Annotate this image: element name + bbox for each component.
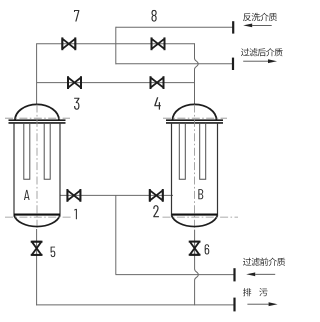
vessel B bottom head — [172, 215, 218, 226]
wire: right riser to vessel B with crossover hop — [195, 43, 199, 104]
vessel A top tangent dash-dot line — [5, 117, 70, 119]
valve 7/8 header line — [37, 43, 195, 45]
wire: vessel A drain drop through valve 5 — [36, 229, 38, 305]
vessel A flange — [9, 119, 66, 121]
过滤后介质 filtrate line — [116, 63, 234, 65]
arrow: filtrate flow (right) — [243, 59, 277, 63]
vessel A shell walls — [13, 123, 15, 215]
valve 1 — [67, 189, 80, 202]
arrow: drain flow (right) — [247, 302, 277, 306]
label valve number 1 — [74, 209, 77, 219]
valve 7 — [62, 37, 75, 50]
wire: riser x=116 backwash to filtrate header — [115, 27, 117, 65]
valve 4 — [151, 76, 164, 89]
valve 1/2 feed cross line — [60, 194, 173, 196]
valve 2 — [150, 189, 163, 202]
valve 3 — [68, 76, 81, 89]
valve 5 — [31, 242, 43, 255]
vessel B filter candle right — [200, 123, 206, 179]
vessel A label A — [24, 190, 30, 200]
wire: vessel B drain drop through valve 6 with hop over feed line — [195, 230, 199, 306]
vessel B dome head — [173, 104, 217, 120]
vessel B label B — [198, 189, 203, 199]
node: drain stub end bar — [233, 298, 235, 312]
vessel B bottom tangent dash-dot line — [163, 216, 239, 218]
vessel A vertical centerline — [36, 105, 38, 229]
node: filtrate stub end bar — [232, 58, 234, 70]
label 反洗介质 backwash medium — [243, 13, 277, 21]
vessel B vertical centerline — [194, 105, 196, 229]
vessel A bottom tangent dash-dot line — [5, 216, 72, 218]
vessel A dome head — [15, 104, 59, 120]
过滤前介质 feed line — [116, 274, 235, 276]
vessel B flange — [166, 119, 223, 121]
label valve number 4 — [154, 97, 161, 109]
valve 3/4 header line — [37, 82, 195, 84]
label valve number 7 — [74, 10, 79, 21]
label valve number 6 — [205, 244, 210, 254]
arrow: feed flow (left) — [246, 272, 275, 276]
valve 8 — [152, 37, 165, 50]
label valve number 5 — [51, 247, 56, 257]
label valve number 2 — [153, 205, 159, 217]
vessel A bottom head — [14, 215, 60, 226]
vessel A filter candle left — [24, 123, 30, 179]
vessel B shell walls — [171, 123, 173, 215]
label 排污 drain — [243, 288, 268, 296]
反洗介质 backwash line — [116, 26, 233, 28]
vessel A filter candle right — [44, 123, 50, 179]
排污 drain header line — [36, 304, 234, 306]
arrow: backwash flow (left) — [243, 24, 272, 28]
wire: feed riser x=116 — [115, 195, 117, 274]
node: backwash stub end bar — [232, 21, 234, 33]
label valve number 3 — [74, 98, 79, 110]
wire: left riser to vessel A — [36, 43, 38, 104]
valve 6 — [189, 242, 201, 255]
vessel B bottom seam — [172, 214, 218, 216]
vessel B filter candle left — [179, 123, 185, 179]
label valve number 8 — [151, 10, 156, 22]
label 过滤前介质 pre-filter medium — [243, 258, 285, 266]
label 过滤后介质 filtered medium — [241, 48, 283, 56]
vessel A bottom seam — [14, 214, 60, 216]
vessel B top tangent dash-dot line — [163, 117, 227, 119]
node: feed stub end bar — [233, 268, 235, 281]
